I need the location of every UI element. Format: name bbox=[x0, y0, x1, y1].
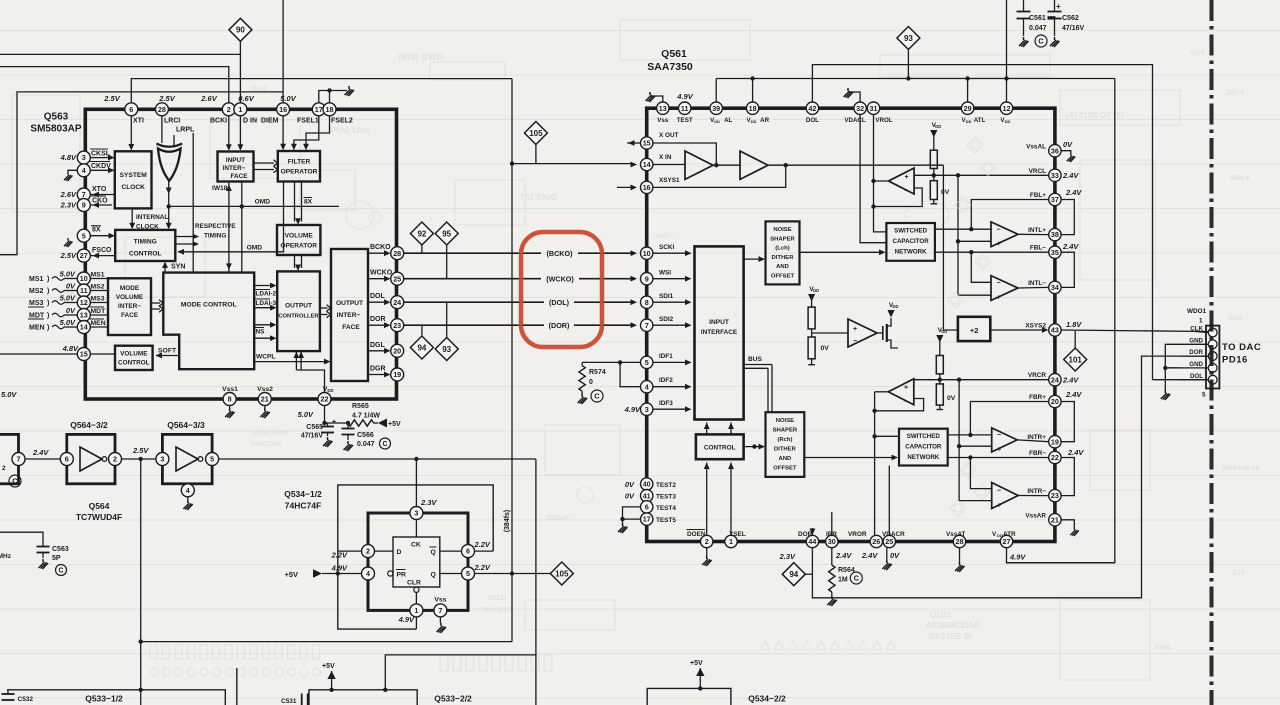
svg-text:MS2: MS2 bbox=[91, 283, 105, 290]
block Q564-3/2 inverter bbox=[67, 434, 115, 483]
wire X IN feed line bbox=[512, 163, 634, 165]
svg-text:0V: 0V bbox=[625, 492, 635, 501]
svg-text:36: 36 bbox=[1051, 146, 1059, 155]
svg-text:−: − bbox=[997, 280, 1001, 287]
SAA7350 pin 36 VssAL bbox=[1049, 145, 1061, 157]
red highlight annotation around serial signals bbox=[521, 232, 602, 347]
wire divider to mid amp bbox=[812, 332, 848, 334]
Q563 pin 9 CKO bbox=[77, 199, 90, 212]
IC Q563 SM5803AP outline bbox=[85, 109, 396, 399]
svg-text:WC2BHC11AB: WC2BHC11AB bbox=[925, 621, 980, 630]
svg-text:7: 7 bbox=[17, 455, 21, 464]
svg-text:−: − bbox=[853, 338, 857, 345]
svg-text:TC7WUD4F: TC7WUD4F bbox=[76, 512, 122, 522]
wire WCKO from output interface bbox=[368, 278, 388, 280]
svg-text:AND: AND bbox=[779, 456, 792, 462]
wire Q output to diamond 105 bbox=[475, 573, 551, 575]
svg-text:47/16V: 47/16V bbox=[301, 433, 324, 440]
op-amp crystal buffer 2 bbox=[740, 151, 768, 179]
svg-text:−: − bbox=[905, 188, 909, 195]
wire clock buffer amps bbox=[685, 151, 713, 179]
svg-text:XTI: XTI bbox=[133, 118, 144, 125]
Q563 pin 10 MS1 bbox=[77, 272, 90, 285]
wire XOR output to timing control bbox=[168, 181, 170, 227]
wire pin 1 stub bbox=[415, 617, 417, 629]
wire CKSL into system clock bbox=[90, 157, 112, 159]
svg-text:14: 14 bbox=[80, 323, 88, 332]
svg-text:5.0V: 5.0V bbox=[60, 318, 76, 327]
block VOLUME CONTROL bbox=[115, 346, 153, 370]
svg-text:CONTROL: CONTROL bbox=[129, 251, 162, 258]
op-amp INTL+ bbox=[991, 222, 1018, 247]
svg-text:CAPACITOR: CAPACITOR bbox=[892, 238, 929, 245]
wire INTR- output to pin 23 bbox=[1018, 495, 1048, 497]
SAA7350 pin 39 Vdd AL bbox=[710, 102, 722, 114]
wire X OUT stub bbox=[627, 142, 641, 144]
svg-text:2: 2 bbox=[227, 105, 231, 114]
svg-text:+: + bbox=[997, 241, 1001, 248]
svg-text:25: 25 bbox=[393, 274, 401, 283]
wire X OUT junction bbox=[653, 143, 716, 165]
svg-text:2.5V: 2.5V bbox=[132, 446, 149, 455]
SAA7350 pin 17 TEST5 bbox=[641, 513, 653, 525]
svg-text:CKO: CKO bbox=[92, 198, 108, 205]
svg-text:+: + bbox=[332, 419, 336, 426]
svg-text:(384fs): (384fs) bbox=[504, 510, 511, 533]
svg-text:105: 105 bbox=[555, 569, 569, 578]
Q563 pin 1 D IN bbox=[234, 103, 247, 116]
svg-text:11: 11 bbox=[681, 104, 689, 113]
wire pin 3 riser bbox=[415, 459, 417, 507]
ground VssAR bbox=[1061, 520, 1074, 527]
block SYSTEM CLOCK bbox=[115, 151, 152, 208]
wire FBL+ feed bbox=[971, 200, 1048, 230]
wire amp1 to amp2 bbox=[713, 164, 740, 166]
svg-text:MEN: MEN bbox=[91, 320, 106, 327]
svg-text:C: C bbox=[12, 477, 18, 486]
svg-text:8X: 8X bbox=[304, 199, 313, 206]
ground VssAL bbox=[1061, 151, 1070, 153]
svg-text:DD: DD bbox=[941, 329, 947, 334]
svg-text:XTO: XTO bbox=[92, 186, 107, 193]
svg-text:0.6V: 0.6V bbox=[238, 94, 254, 103]
Q564 pin 6 bbox=[60, 453, 73, 466]
svg-text:Q1O1: Q1O1 bbox=[930, 610, 952, 619]
svg-text:OFFSET: OFFSET bbox=[773, 466, 797, 472]
transistor MOSFET follower bbox=[877, 332, 883, 334]
svg-text:INTL+: INTL+ bbox=[1028, 227, 1046, 234]
block SWITCHED CAPACITOR NETWORK Lch bbox=[886, 223, 935, 261]
svg-text:C: C bbox=[59, 568, 64, 575]
svg-text:18: 18 bbox=[326, 105, 334, 114]
svg-text:2.6V: 2.6V bbox=[200, 94, 217, 103]
svg-text:DOL: DOL bbox=[370, 293, 386, 300]
svg-text:MEN: MEN bbox=[29, 325, 45, 332]
wire internal bus line y206 bbox=[169, 205, 339, 207]
svg-text:FBL+: FBL+ bbox=[1030, 192, 1046, 199]
svg-text:SOFT: SOFT bbox=[158, 348, 177, 355]
svg-text:VRCL: VRCL bbox=[1029, 168, 1046, 175]
SAA7350 pin 15 X OUT bbox=[641, 137, 653, 149]
wire diamond 94 tie bbox=[805, 573, 812, 575]
svg-text:4.9V: 4.9V bbox=[676, 92, 693, 101]
svg-text:+5V: +5V bbox=[322, 663, 335, 670]
svg-text:DD: DD bbox=[714, 119, 720, 124]
wire VROR riser bbox=[874, 392, 876, 535]
Q563 pin 12 MS3 bbox=[77, 296, 90, 309]
svg-text:38: 38 bbox=[1051, 230, 1059, 239]
svg-text:Q533−1/2: Q533−1/2 bbox=[85, 694, 123, 704]
svg-text:7: 7 bbox=[438, 606, 442, 615]
wire DOR to diamond 94 bbox=[421, 325, 423, 336]
wire +5V to PR bbox=[322, 573, 362, 575]
svg-text:35: 35 bbox=[1051, 248, 1059, 257]
svg-text:VOLUME: VOLUME bbox=[120, 351, 148, 358]
wire LDAI-3 bbox=[254, 307, 273, 309]
wire BCKO from output interface bbox=[368, 252, 388, 254]
svg-text:47/16V: 47/16V bbox=[1062, 25, 1085, 32]
svg-text:25: 25 bbox=[885, 537, 893, 546]
svg-text:A10: A10 bbox=[1232, 570, 1245, 577]
SAA7350 pin 13 Vss bbox=[657, 102, 669, 114]
svg-text:94: 94 bbox=[789, 570, 798, 579]
svg-text:1M: 1M bbox=[838, 577, 848, 584]
SAA7350 pin 11 TEST bbox=[679, 102, 691, 114]
revision mark C561 bbox=[1035, 35, 1047, 47]
ghost mirrored text blocks bbox=[60, 50, 1259, 652]
svg-text:WCPL: WCPL bbox=[256, 354, 275, 361]
wire IDF1 external net bbox=[582, 361, 640, 363]
svg-text:FBR−: FBR− bbox=[1029, 450, 1046, 457]
svg-text:2.4V: 2.4V bbox=[1065, 390, 1082, 399]
wire VROL drop bbox=[874, 115, 887, 232]
svg-text:32: 32 bbox=[856, 104, 864, 113]
wire diamond 95 to WCKO bbox=[446, 245, 448, 279]
svg-text:5: 5 bbox=[645, 358, 649, 367]
svg-text:9: 9 bbox=[82, 201, 86, 210]
svg-text:(DOL): (DOL) bbox=[549, 298, 570, 307]
block Q534-1/2 flip-flop outer bbox=[368, 513, 468, 610]
svg-text:Q564: Q564 bbox=[89, 501, 110, 511]
ground Vss1 bbox=[229, 406, 231, 409]
resistor R564 1M bbox=[831, 548, 833, 565]
svg-text:SYSTEM: SYSTEM bbox=[120, 172, 148, 179]
SAA7350 pin 26 VROR bbox=[870, 535, 882, 547]
svg-text:93: 93 bbox=[904, 34, 913, 43]
svg-text:7: 7 bbox=[645, 321, 649, 330]
capacitor C563 5P bbox=[0, 532, 43, 546]
diamond 95 off-page bbox=[435, 222, 458, 245]
Q563 pin 23 DOR bbox=[391, 319, 404, 332]
Q563 pin 19 DGR bbox=[391, 368, 404, 381]
wire bus double line bbox=[744, 364, 772, 366]
svg-text:5: 5 bbox=[1202, 392, 1206, 399]
capacitor C561 0.047 bbox=[1023, 0, 1025, 12]
wire clock drop to Q533-1/2 bbox=[535, 459, 537, 705]
diamond 101 ref bbox=[1074, 331, 1076, 348]
svg-text:VOLUME: VOLUME bbox=[285, 233, 314, 240]
svg-text:MODE CONTROL: MODE CONTROL bbox=[181, 302, 237, 309]
SAA7350 pin 12 Vdd bbox=[1000, 102, 1012, 114]
wire FSCO bbox=[90, 255, 115, 257]
wire FBR- row bbox=[948, 457, 1049, 459]
svg-text:OPERATOR: OPERATOR bbox=[281, 169, 318, 176]
Q563 pin 8 Vss1 bbox=[223, 393, 236, 406]
svg-text:FILTER: FILTER bbox=[288, 159, 311, 166]
op-amp INTR+ bbox=[992, 428, 1018, 452]
ground FF pin 7 bbox=[439, 617, 441, 623]
svg-text:CONTROLLER: CONTROLLER bbox=[278, 314, 319, 320]
ground Vss2 bbox=[264, 406, 266, 409]
svg-text:MS1: MS1 bbox=[29, 276, 44, 283]
Q563 pin 20 DGL bbox=[391, 344, 404, 357]
svg-text:DD: DD bbox=[892, 304, 898, 309]
svg-text:2.5V: 2.5V bbox=[60, 251, 77, 260]
SAA7350 pin 34 INTL- bbox=[1049, 281, 1061, 293]
Q563 pin 28 BCKO bbox=[391, 247, 404, 260]
svg-text:+2: +2 bbox=[970, 326, 979, 335]
svg-text:TO2\nF: TO2\nF bbox=[545, 515, 570, 522]
wire VROL amp output bbox=[874, 180, 889, 182]
SAA7350 pin 21 VssAR bbox=[1049, 514, 1061, 526]
wire output controller to output interface chevrons bbox=[320, 307, 328, 309]
svg-text:DOR: DOR bbox=[370, 316, 386, 323]
svg-text:28: 28 bbox=[158, 105, 166, 114]
IC Q561 SAA7350 outline bbox=[647, 108, 1055, 541]
svg-text:Q564−3/2: Q564−3/2 bbox=[70, 420, 108, 430]
Q563 pin 25 WCKO bbox=[391, 272, 404, 285]
svg-text:33: 33 bbox=[1051, 171, 1059, 180]
svg-text:5.0V: 5.0V bbox=[298, 410, 314, 419]
svg-text:DGL: DGL bbox=[370, 342, 386, 349]
svg-text:WA2TEB 4F: WA2TEB 4F bbox=[928, 632, 973, 641]
ground pin 5 region bbox=[64, 238, 73, 247]
Q534 pin 1 bbox=[410, 604, 423, 617]
svg-text:(S\S) GWO: (S\S) GWO bbox=[398, 52, 444, 62]
SAA7350 pin 3 IDF3 bbox=[641, 403, 653, 415]
svg-text:): ) bbox=[47, 300, 49, 307]
svg-text:0.047: 0.047 bbox=[357, 441, 375, 448]
svg-text:1: 1 bbox=[414, 606, 418, 615]
wire pin39 riser bbox=[715, 79, 717, 102]
wire OMD into timing control bbox=[178, 182, 284, 252]
wire clock line from Q564-3/3 output bbox=[219, 458, 536, 460]
Q534 pin 2 bbox=[362, 545, 375, 558]
svg-text:IW18: IW18 bbox=[212, 185, 228, 192]
svg-text:44: 44 bbox=[808, 537, 816, 546]
svg-text:95: 95 bbox=[442, 229, 451, 238]
svg-text:2.5V: 2.5V bbox=[158, 94, 175, 103]
wire DGR from output interface bbox=[368, 374, 388, 376]
SAA7350 pin 40 TEST2 bbox=[641, 478, 653, 490]
resistor mid lower bbox=[808, 337, 815, 359]
svg-text:2.3V: 2.3V bbox=[420, 498, 437, 507]
svg-text:2.3V: 2.3V bbox=[779, 552, 796, 561]
SAA7350 pin 30 IRR bbox=[826, 535, 838, 547]
svg-text:DD: DD bbox=[935, 124, 941, 129]
SAA7350 pin 20 FBR+ bbox=[1049, 395, 1061, 407]
wire supply right drop bbox=[1006, 79, 1115, 563]
SAA7350 pin 28 VssAT bbox=[953, 535, 965, 547]
svg-text:5P: 5P bbox=[52, 555, 61, 562]
svg-text:TEST2: TEST2 bbox=[656, 482, 676, 489]
svg-text:0.047: 0.047 bbox=[1029, 25, 1047, 32]
svg-text:ATL: ATL bbox=[974, 117, 986, 124]
Q563 pin 5 8X bbox=[77, 229, 90, 242]
svg-text:Vss: Vss bbox=[657, 117, 669, 124]
svg-text:9: 9 bbox=[645, 274, 649, 283]
svg-text:0V: 0V bbox=[821, 345, 830, 352]
wire D IN into input interface bbox=[239, 116, 241, 148]
svg-text:3: 3 bbox=[82, 153, 86, 162]
svg-text:40: 40 bbox=[643, 480, 651, 489]
ground DOEN bbox=[706, 548, 708, 556]
wire XSYS1 internal bbox=[653, 165, 786, 187]
wire SDI1 into input interface bbox=[653, 301, 688, 303]
SAA7350 pin 7 SDI2 bbox=[641, 319, 653, 331]
ground FSEL tie bbox=[345, 86, 355, 96]
svg-text:42: 42 bbox=[808, 104, 816, 113]
SAA7350 pin 16 XSYS1 bbox=[641, 181, 653, 193]
wire DOL from output interface bbox=[368, 301, 388, 303]
svg-text:4: 4 bbox=[645, 382, 649, 391]
svg-text:2.2V: 2.2V bbox=[331, 551, 348, 560]
svg-text:5.0V: 5.0V bbox=[1, 390, 17, 399]
svg-text:AR: AR bbox=[760, 117, 769, 124]
wire control to noise shaper Rch bbox=[744, 446, 762, 448]
SAA7350 pin 4 IDF2 bbox=[641, 381, 653, 393]
wire pin7 to Q564-3/2 bbox=[25, 458, 60, 460]
svg-text:74HCO05: 74HCO05 bbox=[250, 441, 281, 448]
svg-text:DOR: DOR bbox=[1189, 349, 1203, 356]
svg-text:DD: DD bbox=[966, 119, 972, 124]
wire respective timing arrows bbox=[175, 236, 196, 238]
svg-text:IDF1: IDF1 bbox=[659, 353, 673, 360]
svg-text:NOISE: NOISE bbox=[776, 418, 794, 424]
wire DIEM into filter operator bbox=[282, 116, 284, 148]
node 384fs to X IN line bbox=[510, 161, 514, 165]
block MODE CONTROL (L-shape) bbox=[163, 273, 254, 370]
block +2 divider bbox=[958, 317, 990, 341]
svg-text:Q534−1/2: Q534−1/2 bbox=[284, 489, 322, 499]
svg-text:94: 94 bbox=[417, 343, 426, 352]
svg-text:27: 27 bbox=[1003, 537, 1011, 546]
wire net to D IN (top left horizontal) bbox=[0, 53, 240, 55]
capacitor C565 47/16V bbox=[325, 422, 328, 424]
svg-text:22: 22 bbox=[1051, 453, 1059, 462]
svg-text:Q563: Q563 bbox=[44, 112, 69, 123]
block NOISE SHAPER Rch bbox=[766, 412, 805, 477]
revision mark R564 bbox=[850, 572, 862, 584]
svg-text:FBL−: FBL− bbox=[1030, 245, 1046, 252]
svg-text:LDAI-2: LDAI-2 bbox=[256, 291, 277, 298]
svg-text:TIMING: TIMING bbox=[204, 233, 226, 240]
wire FF loop lower left bbox=[338, 574, 417, 630]
wire Qbar stub bbox=[440, 550, 462, 552]
wire DIEM vertical from page top bbox=[282, 0, 284, 103]
svg-text:INTL−: INTL− bbox=[1028, 280, 1046, 287]
svg-text:0V: 0V bbox=[890, 551, 900, 560]
svg-text:C: C bbox=[594, 392, 600, 401]
ground VDACR bbox=[886, 548, 888, 560]
svg-text:22: 22 bbox=[321, 395, 329, 404]
XOR gate LRCI/LRPL bbox=[158, 149, 181, 181]
Q534 pin 7 bbox=[434, 604, 447, 617]
Q563 pin 7 XTO bbox=[77, 188, 90, 201]
Q534 pin 5 bbox=[462, 567, 475, 580]
revision mark C563 bbox=[56, 565, 67, 576]
wire DOR drop to connector route bbox=[812, 356, 1208, 598]
svg-text:74HC74F: 74HC74F bbox=[285, 501, 321, 511]
svg-text:VssAL: VssAL bbox=[1026, 144, 1046, 151]
svg-text:SCKI: SCKI bbox=[659, 244, 674, 251]
diamond 92 off-page bbox=[410, 222, 433, 245]
wire loop FBR+ to INTR+ bbox=[1061, 402, 1074, 442]
wire FBR- drop to INTR- bbox=[970, 458, 991, 489]
ground C561 bbox=[1019, 37, 1029, 47]
svg-text:0V: 0V bbox=[941, 189, 950, 196]
svg-text:13: 13 bbox=[80, 311, 88, 320]
svg-text:MS2: MS2 bbox=[29, 288, 44, 295]
svg-text:DIEM: DIEM bbox=[261, 118, 279, 125]
SAA7350 pin 6 TEST4 bbox=[641, 501, 653, 513]
block INPUT INTERFACE (Q563) bbox=[218, 152, 254, 182]
SAA7350 pin 19 INTR+ bbox=[1049, 436, 1061, 448]
svg-text:+: + bbox=[997, 447, 1001, 454]
svg-text:4.7 1/4W: 4.7 1/4W bbox=[352, 413, 380, 420]
svg-text:15: 15 bbox=[643, 139, 651, 148]
svg-text:1: 1 bbox=[729, 537, 733, 546]
wire XSYS2 to connector CLK bbox=[1061, 330, 1208, 332]
wire loop FBR- to INTR- bbox=[1061, 458, 1074, 496]
wire input interface to filter operator chevrons bbox=[254, 162, 275, 164]
SAA7350 pin 29 Vdd ATL bbox=[961, 102, 973, 114]
svg-text:OUTPUT: OUTPUT bbox=[285, 303, 312, 310]
wire pin 2 to loop bbox=[338, 550, 362, 552]
diamond 105 bottom bbox=[550, 562, 573, 585]
wire mode ctl 4th arrow bbox=[254, 337, 273, 339]
Q563 pin 2 BCKI bbox=[222, 103, 235, 116]
svg-text:93: 93 bbox=[442, 345, 451, 354]
svg-text:WCKO: WCKO bbox=[370, 270, 393, 277]
SAA7350 pin 9 WSI bbox=[641, 273, 653, 285]
svg-text:C563: C563 bbox=[52, 546, 69, 553]
svg-text:CLR: CLR bbox=[407, 580, 421, 587]
svg-text:0V: 0V bbox=[66, 306, 76, 315]
+5V arrow into FF bbox=[313, 569, 322, 577]
svg-text:21: 21 bbox=[1051, 515, 1059, 524]
revision mark R574 bbox=[591, 390, 603, 402]
svg-text:Ut(N) 1A\A: Ut(N) 1A\A bbox=[330, 126, 370, 135]
svg-text:2.4V: 2.4V bbox=[1062, 171, 1079, 180]
wire XSEL to control bbox=[730, 463, 732, 536]
Q563 pin 28 LRCI bbox=[155, 103, 168, 116]
svg-text:2: 2 bbox=[113, 455, 117, 464]
svg-text:CONTROL: CONTROL bbox=[704, 445, 736, 452]
svg-text:31: 31 bbox=[870, 104, 878, 113]
SAA7350 pin 41 TEST3 bbox=[641, 490, 653, 502]
svg-text:IDF2: IDF2 bbox=[659, 377, 673, 384]
svg-text:2.4V: 2.4V bbox=[1062, 242, 1079, 251]
resistor divider lower Lch 0V bbox=[933, 169, 935, 181]
svg-text:23: 23 bbox=[1051, 491, 1059, 500]
svg-text:OPERATOR: OPERATOR bbox=[280, 243, 317, 250]
wire Q564 vertical to bottom bbox=[140, 459, 142, 705]
svg-text:11: 11 bbox=[80, 286, 88, 295]
wire VROL amp feedback bbox=[874, 188, 923, 207]
svg-text:20: 20 bbox=[393, 346, 401, 355]
svg-text:10: 10 bbox=[643, 249, 651, 258]
